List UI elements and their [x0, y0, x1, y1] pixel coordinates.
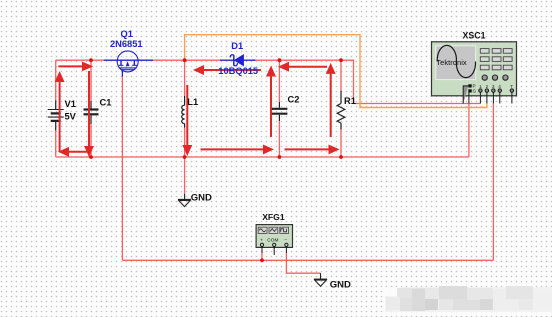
svg-text:G: G — [473, 89, 477, 94]
junction node R1 bottom — [339, 155, 343, 159]
wire scope P jog — [463, 86, 468, 104]
svg-text:XFG1: XFG1 — [262, 212, 285, 222]
scope buttons 3x3 — [480, 49, 512, 70]
ground GND2 — [314, 273, 327, 286]
ground GND1 — [178, 194, 191, 207]
svg-text:Q1: Q1 — [121, 29, 133, 39]
junction node XFG1 plus — [260, 258, 264, 262]
junction node C2 top — [278, 58, 282, 62]
svg-text:2N6851: 2N6851 — [110, 39, 143, 49]
svg-text:GND: GND — [330, 280, 351, 291]
wire left branch V1 upper — [55, 60, 57, 100]
svg-text:5V: 5V — [65, 112, 77, 122]
wire D1 to R1 top and scope ch1 corner — [256, 60, 481, 103]
pin T circle and lead — [510, 89, 513, 92]
wire XFG1 plus pin — [261, 253, 263, 260]
inductor L1 — [182, 96, 185, 128]
svg-text:XSC1: XSC1 — [463, 31, 486, 41]
resistor R1 — [337, 91, 345, 130]
oscilloscope XSC1 — [432, 42, 517, 104]
wire Q1 drain to D1 — [153, 59, 220, 61]
scope sine wave — [437, 45, 475, 77]
battery V1 — [48, 101, 64, 131]
wire Q1 gate down — [121, 77, 123, 261]
scope knobs — [482, 75, 508, 80]
pin 3 circle and lead — [492, 89, 495, 92]
pin 2 circle and lead — [485, 89, 488, 92]
wire XFG1 horizontal gate bus — [122, 259, 493, 261]
annotation arrows — [56, 63, 337, 155]
svg-text:R1: R1 — [344, 96, 356, 106]
wire bottom rail — [56, 156, 469, 158]
wire orange scope ch2 tap — [185, 35, 487, 108]
wire L1 branch upper — [184, 60, 186, 96]
wire C1 branch upper — [90, 60, 92, 101]
diode D1 (10BQ015) — [220, 55, 256, 66]
capacitor C2 — [271, 102, 287, 121]
XFG1 pin COM — [273, 243, 276, 246]
svg-text:GND: GND — [191, 192, 212, 203]
wire C2 branch lower — [278, 121, 280, 157]
arrow current D1 left — [203, 69, 261, 71]
wire R1 branch lower — [340, 130, 342, 158]
function generator XFG1 — [256, 225, 292, 255]
wire C2 branch upper — [278, 60, 280, 102]
pin 1 circle and lead — [479, 89, 482, 92]
instruments — [256, 42, 516, 255]
wire XFG1 minus to GND2 — [286, 253, 320, 273]
svg-text:10BQ015: 10BQ015 — [218, 66, 258, 76]
wire C1 branch lower — [90, 124, 92, 157]
junction node R1 top — [339, 58, 343, 62]
svg-text:D1: D1 — [231, 41, 243, 51]
arrow current L1 down — [186, 85, 188, 146]
arrow current C2 top left — [288, 66, 327, 68]
triangle icon — [270, 229, 277, 232]
wire L1 branch lower — [184, 128, 186, 158]
junction node C2 bottom — [278, 155, 282, 159]
svg-text:V1: V1 — [65, 99, 76, 109]
junction node C1 bottom — [89, 155, 93, 159]
wire scope pin3 down — [492, 104, 494, 261]
junction node C1 top — [89, 58, 93, 62]
XFG1 pin plus — [260, 243, 263, 246]
svg-text:C1: C1 — [100, 97, 112, 107]
arrow current C2-R1 bottom right — [285, 148, 330, 150]
wire R1 branch upper — [340, 60, 342, 90]
arrow current C2-R1 loop up — [330, 73, 332, 137]
junction node L1 bottom — [183, 155, 187, 159]
wire L1 bottom to GND1 — [184, 157, 186, 194]
svg-text:Tektronix: Tektronix — [436, 58, 467, 67]
arrow current V1 up — [59, 81, 61, 152]
scope pin P — [468, 84, 471, 87]
square icon — [281, 229, 287, 232]
arrow current top-left right — [58, 65, 83, 67]
transistor Q1 (MOSFET 2N6851) — [104, 51, 153, 77]
arrow current L1-C2 bottom right — [201, 148, 265, 150]
svg-text:C2: C2 — [288, 95, 300, 105]
arrow current C1 down — [88, 71, 90, 147]
svg-text:COM: COM — [267, 238, 278, 244]
arrow current bottom-left left — [68, 151, 87, 153]
pin 4 circle and lead — [498, 89, 501, 92]
wire scope G to bottom rail — [468, 104, 470, 158]
svg-text:+: + — [260, 239, 263, 244]
svg-text:T: T — [510, 84, 513, 89]
wire left branch V1 lower — [55, 131, 57, 158]
wire top rail V1 to Q1 — [56, 59, 104, 61]
capacitor C1 — [84, 101, 99, 124]
scope pin numbers 1 2 3 4 T — [479, 84, 513, 89]
scope pin G — [468, 89, 471, 92]
XFG1 pin minus — [285, 243, 288, 246]
watermark (blurred gray blocks bottom right) — [385, 286, 552, 312]
svg-text:L1: L1 — [187, 97, 198, 107]
sine icon — [259, 229, 265, 232]
arrow current D1-C2 loop up — [270, 76, 272, 138]
wire scope G lead — [468, 93, 470, 104]
junction node L1 top — [183, 58, 187, 62]
